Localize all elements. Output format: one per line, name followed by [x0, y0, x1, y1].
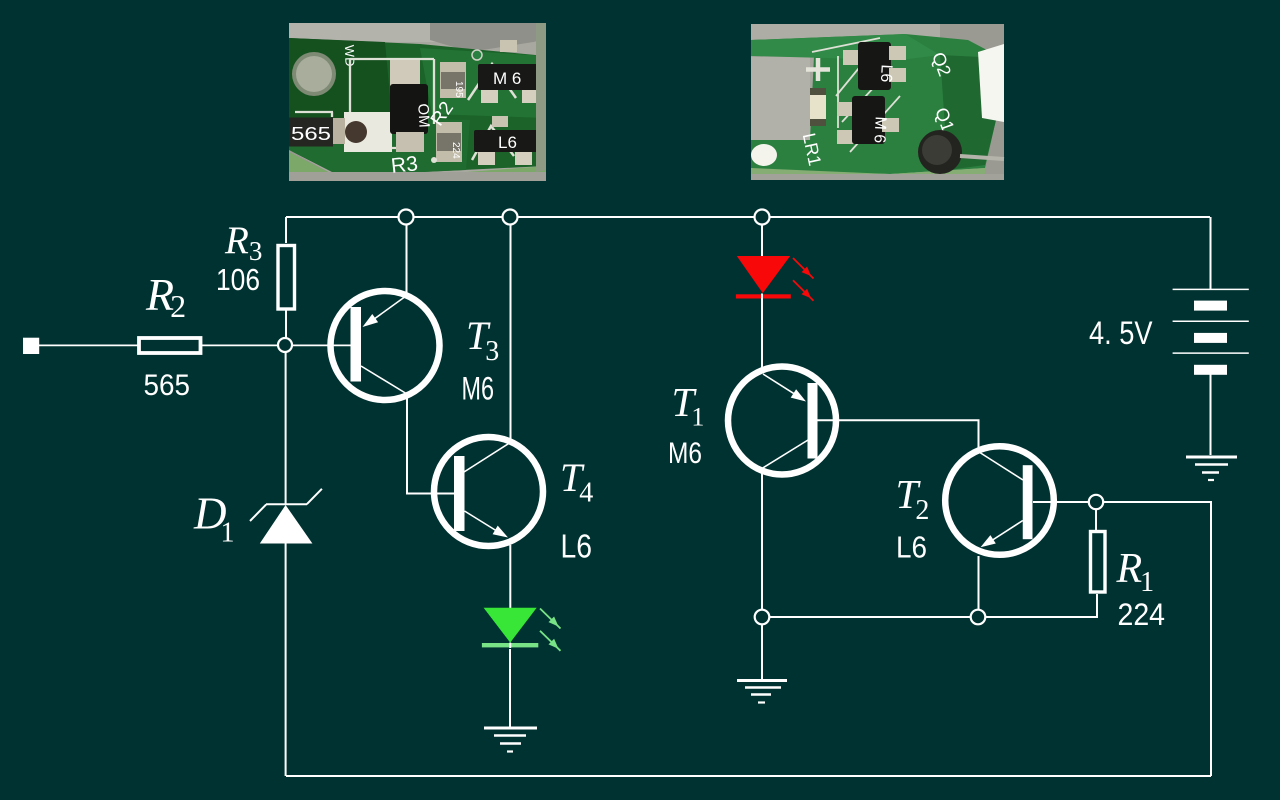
- svg-text:224: 224: [1118, 596, 1166, 632]
- svg-text:L6: L6: [877, 64, 895, 83]
- resistor R1: [1091, 532, 1106, 593]
- svg-text:L6: L6: [498, 133, 517, 152]
- wire D1 branch: [285, 352, 287, 776]
- LED red: [736, 256, 814, 301]
- svg-text:M6: M6: [462, 371, 495, 407]
- label 4.5V: [1089, 315, 1153, 351]
- wire T1 base to T2 collector: [818, 420, 979, 452]
- svg-text:106: 106: [216, 262, 260, 297]
- node 5 (T2 base / R1): [1089, 495, 1103, 509]
- wire red LED branch: [761, 224, 763, 368]
- node 7 (T2 emitter): [971, 610, 986, 625]
- svg-text:M6: M6: [668, 437, 702, 470]
- wire T3 emitter to top node: [406, 217, 408, 296]
- wire bottom rail: [286, 775, 1211, 777]
- PCB photo right: [751, 24, 1004, 180]
- node 2: [503, 210, 518, 225]
- svg-text:4. 5V: 4. 5V: [1089, 315, 1153, 351]
- label 565: [144, 369, 191, 402]
- label R1: [1116, 546, 1155, 598]
- wire T2 base to right rail: [1033, 502, 1211, 776]
- wire top rail: [286, 216, 1210, 218]
- svg-text:L6: L6: [896, 530, 927, 565]
- node A (R2/R3/D1/T3 junction): [278, 338, 292, 352]
- ground battery: [1186, 457, 1237, 480]
- wire node6 to ground: [761, 624, 763, 679]
- svg-text:M 6: M 6: [870, 116, 888, 144]
- wire battery bottom: [1210, 374, 1212, 455]
- transistor T4: [434, 437, 543, 546]
- svg-text:195: 195: [453, 81, 464, 98]
- label T1: [672, 379, 705, 432]
- label R2: [145, 269, 186, 324]
- label M6 T1: [668, 437, 702, 470]
- transistor T3: [331, 291, 440, 400]
- svg-text:R3: R3: [390, 152, 419, 178]
- svg-text:565: 565: [291, 124, 331, 144]
- wire R1 bottom to bottom rail: [762, 594, 1097, 617]
- wire input: [39, 344, 139, 346]
- wire T3 collector to T4 base: [407, 393, 454, 494]
- wire T4 emitter to green LED: [509, 545, 511, 608]
- label T2: [896, 471, 930, 526]
- wire T4 collector to top node: [510, 217, 512, 442]
- resistor R2: [139, 338, 201, 353]
- PCB photo left: [289, 23, 546, 181]
- wire R2 to node: [201, 344, 351, 346]
- svg-text:L6: L6: [561, 528, 593, 565]
- resistor R3: [278, 246, 295, 310]
- svg-text:224: 224: [450, 142, 461, 159]
- LED green: [482, 608, 561, 651]
- wire left rail: [285, 217, 287, 345]
- zener diode D1: [250, 489, 322, 544]
- ground under T1: [737, 681, 787, 703]
- label M6 T3: [462, 371, 495, 407]
- label 224: [1118, 596, 1166, 632]
- label L6 T4: [561, 528, 593, 565]
- label T4: [560, 455, 593, 509]
- svg-text:565: 565: [144, 369, 191, 402]
- label R3: [224, 219, 262, 266]
- label 106: [216, 262, 260, 297]
- wire node5 to R1: [1095, 509, 1097, 530]
- node 6 (T1 collector/ground): [755, 610, 770, 625]
- label D1: [193, 489, 235, 549]
- node input terminal: [23, 338, 39, 354]
- transistor T1: [728, 367, 836, 475]
- label L6 T2: [896, 530, 927, 565]
- svg-text:M 6: M 6: [493, 69, 521, 88]
- wire T2 emitter down: [978, 556, 980, 617]
- wire T1 collector down: [761, 469, 763, 617]
- label T3: [466, 313, 499, 367]
- wire green LED to ground: [509, 649, 511, 728]
- wire battery top: [1210, 217, 1212, 289]
- transistor T2: [945, 446, 1054, 555]
- node 3: [755, 210, 770, 225]
- battery 4.5V: [1173, 289, 1249, 374]
- node 1: [399, 210, 414, 225]
- ground under green LED: [484, 728, 537, 752]
